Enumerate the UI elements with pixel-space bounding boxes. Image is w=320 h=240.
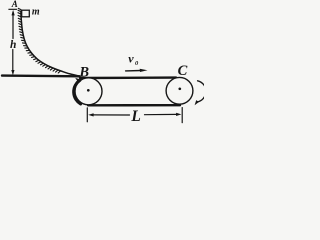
L left arrowhead (88, 113, 93, 116)
v0 arrowhead (140, 69, 148, 72)
pulley C center dot (178, 87, 181, 90)
svg-text:A: A (11, 0, 18, 9)
ramp hatching (18, 8, 61, 73)
belt top line (80, 76, 176, 79)
pulley B circle (75, 78, 102, 105)
rotation arrow at C (197, 81, 206, 102)
ramp curve AB (21, 11, 80, 76)
pulley B crescent arrow wedge (75, 78, 80, 83)
h dimension down arrowhead (11, 70, 14, 75)
L dimension left tick (86, 108, 88, 122)
svg-text:v: v (128, 52, 134, 66)
L dimension right shaft (145, 113, 177, 115)
h dimension line lower segment (12, 50, 14, 72)
svg-text:C: C (178, 63, 188, 79)
rotation arrow C arrowhead (195, 100, 199, 105)
pulley C circle (166, 77, 193, 104)
svg-text:B: B (78, 64, 89, 80)
svg-text:h: h (10, 39, 16, 51)
h dimension top tick (9, 8, 17, 10)
L right arrowhead (176, 113, 181, 116)
pulley B thick left crescent (74, 80, 81, 104)
h dimension line upper segment (12, 12, 14, 39)
pulley B center dot (87, 89, 90, 92)
h dimension up arrowhead (12, 10, 15, 16)
block m (22, 10, 30, 17)
L dimension left shaft (93, 114, 130, 116)
L dimension right tick (181, 108, 183, 123)
belt bottom line (88, 104, 180, 107)
svg-text:m: m (32, 7, 40, 18)
svg-text:L: L (130, 108, 140, 125)
v0 arrow (126, 70, 141, 72)
ground line (2, 74, 80, 77)
